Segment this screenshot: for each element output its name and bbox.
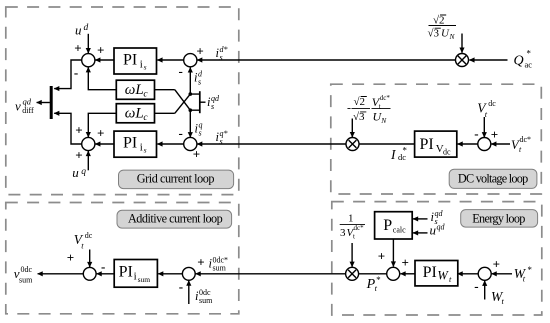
svg-text:u: u [430, 223, 437, 238]
svg-text:+: + [193, 147, 200, 162]
svg-text:-: - [179, 64, 183, 79]
svg-text:i: i [140, 59, 143, 71]
svg-text:*: * [376, 275, 381, 285]
svg-text:-: - [179, 279, 183, 294]
svg-text:+: + [401, 255, 408, 270]
svg-text:-: - [474, 126, 478, 141]
svg-text:Energy loop: Energy loop [472, 211, 525, 225]
svg-text:√3: √3 [428, 28, 440, 40]
svg-text:*: * [402, 145, 407, 155]
svg-text:dc: dc [85, 231, 93, 240]
svg-text:PI: PI [123, 135, 137, 152]
svg-text:q: q [199, 121, 203, 130]
svg-text:+: + [97, 126, 104, 141]
svg-text:u: u [75, 23, 82, 38]
svg-text:s: s [220, 53, 223, 62]
svg-text:q: q [81, 167, 86, 177]
svg-text:dc*: dc* [354, 224, 365, 232]
svg-text:dc: dc [488, 99, 496, 108]
svg-text:√3: √3 [353, 111, 365, 123]
svg-text:PI: PI [119, 263, 133, 280]
svg-text:diff: diff [22, 106, 34, 115]
svg-text:-: - [179, 126, 183, 141]
svg-text:-: - [74, 65, 78, 80]
svg-text:v: v [15, 98, 21, 113]
svg-text:0dc: 0dc [199, 288, 211, 297]
svg-text:q*: q* [220, 129, 228, 138]
svg-text:-: - [101, 259, 105, 274]
svg-text:ωL: ωL [125, 82, 144, 98]
svg-text:*: * [527, 265, 532, 275]
svg-text:-: - [474, 279, 478, 294]
svg-text:t: t [353, 233, 355, 241]
svg-text:sum: sum [199, 296, 213, 305]
svg-text:*: * [526, 49, 531, 59]
svg-text:+: + [197, 255, 204, 270]
svg-text:3: 3 [340, 227, 346, 239]
svg-text:0dc*: 0dc* [213, 256, 229, 265]
svg-text:qd: qd [211, 94, 220, 103]
svg-text:PI: PI [423, 264, 437, 281]
svg-text:+: + [491, 127, 498, 142]
svg-text:s: s [144, 146, 147, 155]
svg-text:Grid current loop: Grid current loop [137, 172, 215, 186]
svg-text:DC voltage loop: DC voltage loop [458, 171, 528, 185]
svg-text:N: N [449, 32, 456, 41]
svg-text:+: + [196, 44, 203, 59]
svg-text:Q: Q [514, 53, 524, 68]
svg-text:s: s [211, 102, 214, 111]
svg-text:+: + [75, 147, 82, 162]
svg-text:dc*: dc* [520, 135, 532, 144]
svg-text:d: d [84, 23, 89, 33]
svg-text:s: s [144, 63, 147, 72]
svg-text:P: P [383, 217, 392, 234]
svg-text:1: 1 [348, 213, 354, 225]
svg-text:d*: d* [220, 45, 228, 54]
svg-text:sum: sum [138, 275, 151, 284]
svg-text:-: - [347, 100, 351, 114]
svg-text:N: N [380, 116, 387, 125]
svg-text:calc: calc [393, 225, 406, 234]
svg-text:sum: sum [213, 264, 227, 273]
svg-text:+: + [75, 123, 82, 138]
svg-text:0dc: 0dc [21, 265, 33, 274]
svg-text:√2: √2 [433, 15, 445, 27]
svg-text:qd: qd [435, 209, 444, 218]
svg-text:s: s [199, 129, 202, 138]
svg-text:sum: sum [19, 276, 33, 285]
svg-text:+: + [378, 249, 385, 264]
svg-text:W: W [437, 268, 449, 282]
svg-text:PI: PI [123, 52, 137, 69]
svg-text:Additive current loop: Additive current loop [128, 211, 223, 225]
svg-text:PI: PI [420, 136, 434, 153]
svg-text:dc*: dc* [380, 94, 391, 102]
svg-text:ac: ac [525, 60, 533, 70]
svg-text:ωL: ωL [125, 105, 144, 121]
svg-text:s: s [198, 78, 201, 87]
svg-text:s: s [220, 137, 223, 146]
svg-text:u: u [72, 165, 79, 180]
svg-text:√2: √2 [354, 96, 366, 108]
svg-text:+: + [97, 43, 104, 58]
svg-text:+: + [493, 256, 500, 271]
svg-text:qd: qd [437, 223, 446, 232]
svg-text:+: + [74, 41, 81, 56]
svg-text:i: i [140, 142, 143, 154]
svg-text:+: + [67, 250, 74, 265]
svg-text:i: i [134, 270, 137, 282]
svg-text:dc: dc [443, 147, 451, 156]
